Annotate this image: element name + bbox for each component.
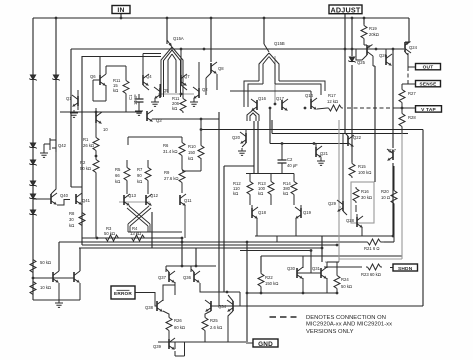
svg-text:R17: R17 — [328, 93, 336, 98]
svg-text:SENSE: SENSE — [420, 82, 437, 87]
svg-text:kΩ: kΩ — [137, 179, 142, 184]
svg-text:Q19: Q19 — [303, 210, 312, 215]
svg-text:90: 90 — [137, 173, 142, 178]
svg-text:Q37: Q37 — [158, 275, 167, 280]
svg-text:R19: R19 — [369, 26, 377, 31]
svg-text:Q3: Q3 — [156, 118, 162, 123]
svg-text:30 kΩ: 30 kΩ — [361, 195, 372, 200]
svg-text:R6: R6 — [163, 143, 169, 148]
svg-text:100 kΩ: 100 kΩ — [358, 170, 371, 175]
svg-text:66: 66 — [115, 173, 120, 178]
svg-text:R22: R22 — [265, 275, 273, 280]
svg-text:Q30: Q30 — [287, 266, 296, 271]
svg-text:ERROR: ERROR — [114, 291, 132, 296]
svg-text:26 kΩ: 26 kΩ — [83, 143, 94, 148]
svg-text:R1: R1 — [83, 137, 89, 142]
svg-text:kΩ: kΩ — [115, 179, 120, 184]
svg-text:30: 30 — [69, 217, 74, 222]
svg-text:C2: C2 — [287, 157, 293, 162]
svg-text:20kΩ: 20kΩ — [369, 32, 379, 37]
svg-text:12 kΩ: 12 kΩ — [327, 99, 338, 104]
svg-text:Q18: Q18 — [258, 210, 267, 215]
svg-text:50 kΩ: 50 kΩ — [341, 284, 352, 289]
svg-text:150 kΩ: 150 kΩ — [265, 281, 278, 286]
svg-text:V TAP: V TAP — [421, 107, 436, 113]
svg-text:Q22: Q22 — [353, 135, 362, 140]
svg-text:kΩ: kΩ — [258, 191, 263, 196]
svg-text:R26: R26 — [174, 318, 182, 323]
svg-text:Q24: Q24 — [409, 45, 418, 50]
svg-text:Q2: Q2 — [202, 87, 208, 92]
svg-text:kΩ: kΩ — [172, 106, 177, 111]
svg-text:R24: R24 — [341, 277, 349, 282]
svg-text:R21 6 Ω: R21 6 Ω — [364, 246, 379, 251]
svg-text:10: 10 — [103, 127, 108, 132]
svg-text:10 kΩ: 10 kΩ — [40, 285, 51, 290]
svg-text:R23 60 kΩ: R23 60 kΩ — [361, 272, 381, 277]
svg-text:Q36: Q36 — [183, 275, 192, 280]
svg-text:kΩ: kΩ — [233, 191, 238, 196]
svg-text:R9: R9 — [164, 170, 170, 175]
svg-text:Q17: Q17 — [276, 96, 285, 101]
svg-text:Q21: Q21 — [320, 151, 329, 156]
svg-text:OUT: OUT — [423, 65, 434, 71]
svg-text:Q41: Q41 — [82, 198, 91, 203]
svg-text:kΩ: kΩ — [283, 191, 288, 196]
svg-text:R25: R25 — [210, 318, 218, 323]
svg-text:R27: R27 — [408, 91, 416, 96]
svg-text:150: 150 — [188, 150, 196, 155]
svg-text:MIC2920A-xx AND MIC29201-xx: MIC2920A-xx AND MIC29201-xx — [306, 322, 392, 328]
svg-text:Q25: Q25 — [357, 60, 366, 65]
svg-text:Q40: Q40 — [60, 193, 69, 198]
svg-text:13 kΩ: 13 kΩ — [130, 231, 141, 236]
svg-text:Q8: Q8 — [218, 66, 224, 71]
svg-text:Q31: Q31 — [312, 266, 321, 271]
svg-text:50 kΩ: 50 kΩ — [104, 231, 115, 236]
svg-text:VERSIONS ONLY: VERSIONS ONLY — [306, 329, 354, 335]
svg-text:R15: R15 — [358, 164, 366, 169]
svg-text:Q15B: Q15B — [274, 41, 285, 46]
svg-text:Q39: Q39 — [153, 344, 162, 349]
svg-text:Q1: Q1 — [66, 96, 72, 101]
svg-text:Q16: Q16 — [258, 96, 267, 101]
svg-text:Q28: Q28 — [346, 218, 355, 223]
svg-text:R20: R20 — [381, 189, 389, 194]
svg-text:R16: R16 — [361, 189, 369, 194]
svg-text:Q11: Q11 — [184, 198, 192, 203]
svg-text:Q7: Q7 — [184, 74, 190, 79]
svg-text:DENOTES CONNECTION ON: DENOTES CONNECTION ON — [306, 315, 386, 321]
svg-text:R7: R7 — [137, 167, 143, 172]
svg-text:Q12: Q12 — [150, 193, 159, 198]
svg-text:kΩ: kΩ — [188, 156, 193, 161]
svg-text:kΩ: kΩ — [113, 88, 118, 93]
svg-text:Q13: Q13 — [128, 193, 137, 198]
svg-text:Q27: Q27 — [388, 148, 397, 153]
svg-text:R10: R10 — [188, 144, 196, 149]
svg-text:IN: IN — [117, 7, 124, 14]
svg-text:R5: R5 — [115, 167, 121, 172]
svg-text:Q42: Q42 — [58, 143, 67, 148]
svg-text:GND: GND — [258, 341, 273, 348]
svg-text:SHDN: SHDN — [398, 266, 413, 272]
svg-text:10 pF: 10 pF — [133, 94, 138, 105]
svg-text:Q20: Q20 — [232, 135, 241, 140]
svg-text:Q14: Q14 — [305, 93, 314, 98]
svg-text:2.6 kΩ: 2.6 kΩ — [210, 325, 222, 330]
svg-text:27.6 kΩ: 27.6 kΩ — [164, 176, 179, 181]
svg-text:R8: R8 — [69, 211, 75, 216]
svg-text:Q38: Q38 — [145, 305, 154, 310]
svg-text:50 kΩ: 50 kΩ — [40, 260, 51, 265]
svg-text:ADJUST: ADJUST — [331, 6, 361, 15]
svg-text:40 pF: 40 pF — [287, 163, 298, 168]
svg-text:R28: R28 — [408, 115, 416, 120]
svg-text:Q6: Q6 — [90, 74, 96, 79]
svg-text:60 kΩ: 60 kΩ — [174, 325, 185, 330]
svg-text:Q29: Q29 — [328, 201, 337, 206]
svg-text:R2: R2 — [80, 160, 86, 165]
svg-text:Q15A: Q15A — [173, 36, 184, 41]
svg-text:10 Ω: 10 Ω — [381, 195, 390, 200]
svg-text:50 kΩ: 50 kΩ — [80, 166, 91, 171]
svg-text:Q4: Q4 — [146, 74, 152, 79]
svg-text:31.4 kΩ: 31.4 kΩ — [163, 149, 178, 154]
svg-text:kΩ: kΩ — [69, 223, 74, 228]
